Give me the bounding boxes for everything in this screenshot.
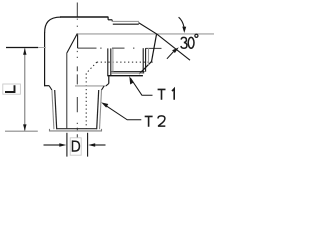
fillet corner arc xyxy=(45,17,61,33)
30 degree upper arrowhead xyxy=(182,27,186,33)
T1 leader line xyxy=(131,78,153,95)
D dimension right extension line xyxy=(87,133,89,157)
right thread inner line xyxy=(97,90,99,129)
L dimension top extension line xyxy=(6,47,38,49)
D label box xyxy=(70,138,81,155)
shoulder gray line xyxy=(75,85,106,87)
leg left edge xyxy=(44,33,46,87)
arm tip vertical 1 xyxy=(142,48,144,73)
T1 label glyph T xyxy=(158,89,166,100)
D dimension left arrow xyxy=(44,144,60,146)
right stud corner chamfer xyxy=(102,86,105,90)
inner corner chamfer xyxy=(67,33,77,52)
leg right lower chamfer xyxy=(106,84,109,86)
left shoulder chamfer xyxy=(49,86,52,90)
arm hex vertical 3 gray xyxy=(112,48,114,71)
L dimension arrow down xyxy=(23,124,26,131)
T2 leader arrow xyxy=(101,102,108,107)
vertical centerline of leg xyxy=(76,3,78,138)
30 degree label degree symbol xyxy=(195,34,198,37)
left thread inner line xyxy=(55,90,57,129)
L label box xyxy=(3,84,21,94)
left thread outer line xyxy=(52,90,54,129)
L dimension top extension gray part xyxy=(38,47,46,49)
arm thread bottom black line xyxy=(112,71,145,73)
arm bottom silhouette xyxy=(107,75,143,77)
horizontal centerline of arm xyxy=(78,47,162,49)
stud bottom face xyxy=(56,128,97,130)
T1 label glyph 1 xyxy=(172,89,174,100)
hidden thread dotted vertical xyxy=(85,73,87,128)
stud bottom wide line xyxy=(50,129,102,131)
L dimension bottom extension line xyxy=(5,130,38,132)
bore top gray line xyxy=(78,33,215,35)
T2 leader line xyxy=(106,106,141,120)
L dimension arrow up xyxy=(23,48,26,55)
inner bore solid line xyxy=(66,53,68,129)
arm hex vertical 1 xyxy=(107,48,109,75)
30 degree lower arrowhead xyxy=(172,47,179,53)
hidden bore dotted corner diagonal xyxy=(86,62,97,73)
30 degree upper leader xyxy=(179,17,184,27)
30 degree label glyph 3 xyxy=(181,37,187,48)
T1 leader arrow xyxy=(129,76,133,85)
D dimension right arrow xyxy=(95,144,106,146)
30 degree label glyph 0 xyxy=(188,37,194,48)
arm tip vertical 2 xyxy=(145,48,147,71)
cone bottom edge xyxy=(139,62,151,74)
arm thread top gray line xyxy=(112,20,139,22)
leg right edge xyxy=(108,76,110,84)
L dimension line xyxy=(24,48,26,131)
tip seat face xyxy=(152,34,157,61)
inner corner vertical xyxy=(77,34,79,49)
D label glyph xyxy=(73,140,80,151)
arm thread bottom gray line xyxy=(112,72,145,74)
cone top edge and angle line xyxy=(139,23,191,61)
left shoulder step xyxy=(44,85,49,87)
arm thread top black line xyxy=(113,23,139,25)
30 degree lower leader xyxy=(167,52,174,59)
L label glyph (rotated) xyxy=(5,85,15,92)
arm hex vertical 2 xyxy=(110,48,112,75)
hidden bore dotted horizontal xyxy=(97,61,155,63)
T2 label glyph 2 xyxy=(158,116,165,126)
T2 label glyph T xyxy=(145,116,153,127)
arm tip vertical 3 gray xyxy=(148,48,150,65)
arm step vertical at body end xyxy=(107,17,109,20)
arm step small vertical xyxy=(111,20,113,22)
D dimension left extension line xyxy=(66,133,68,157)
arm step horizontal xyxy=(108,19,112,21)
body top edge xyxy=(60,16,108,18)
right thread outer line xyxy=(100,90,102,129)
